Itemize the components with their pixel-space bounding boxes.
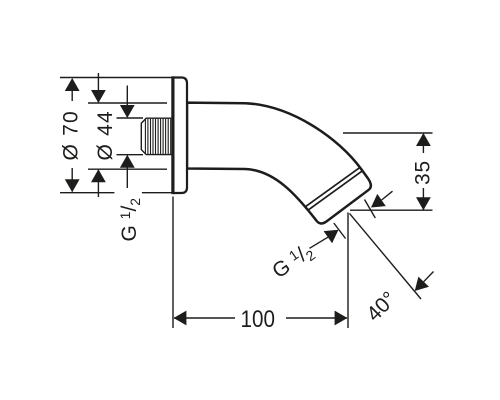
thread hatching	[145, 119, 170, 154]
G1/2 wall thread body (chamfered block)	[141, 118, 172, 154]
dim G1/2 nozzle arrow upper (pointing down-left)	[371, 194, 386, 208]
dim G1/2 nozzle extension line upper (parallel to axis)	[365, 200, 376, 219]
dim Ø44 extension lines (arm tube top/bottom)	[88, 103, 167, 169]
dim Ø44 dimension line	[97, 73, 99, 197]
dim 35 dimension line	[422, 134, 424, 210]
dim G1/2 thread arrow down	[120, 105, 135, 118]
dim 35 arrow down	[416, 197, 431, 210]
dim 35 extension lines	[343, 133, 433, 210]
dim G1/2 nozzle arrow lower (pointing up-right)	[324, 230, 339, 244]
dim G1/2 thread extension lines	[117, 118, 144, 155]
dim 40deg arrow tail	[424, 272, 434, 282]
dim Ø70 arrow down	[65, 179, 80, 192]
dim G1/2 thread dimension line	[126, 86, 128, 189]
dim 40deg slanted reference line (nozzle axis)	[350, 213, 422, 299]
dim G1/2 nozzle leader line to label	[310, 237, 328, 248]
dim 35 arrow up	[416, 133, 431, 146]
flange mounting face (thick wall line)	[171, 76, 174, 194]
dim 100 dimension line	[174, 317, 347, 319]
svg-text:35: 35	[412, 160, 435, 185]
dim 100 extension line right / 40deg vertical reference	[347, 213, 349, 329]
dim Ø44 arrow up (outside, pointing at bottom line)	[91, 169, 106, 182]
dim Ø70 extension lines (flange top/bottom)	[60, 78, 172, 193]
dim Ø70 arrow up	[65, 78, 80, 91]
svg-text:Ø 70: Ø 70	[60, 110, 83, 160]
svg-text:Ø 44: Ø 44	[94, 110, 117, 160]
dim Ø70 dimension line	[71, 79, 73, 192]
dim G1/2 thread arrow up	[120, 155, 135, 168]
dim Ø44 arrow down (outside, pointing at top line)	[91, 90, 106, 103]
nozzle trim ring (double band)	[306, 168, 363, 210]
dim 100 extension line left (from flange face)	[172, 197, 174, 329]
shower arm body (curved tube with angled nozzle face)	[187, 103, 371, 224]
dim 100 arrow right	[335, 311, 348, 326]
dim 100 arrow left	[174, 311, 187, 326]
wall flange plate	[173, 78, 187, 194]
dim G1/2 nozzle arrow upper tail	[382, 191, 393, 200]
dim G1/2 nozzle extension line lower (parallel to axis)	[334, 223, 346, 239]
svg-text:100: 100	[241, 306, 275, 333]
dim 40deg arrow	[415, 277, 429, 291]
